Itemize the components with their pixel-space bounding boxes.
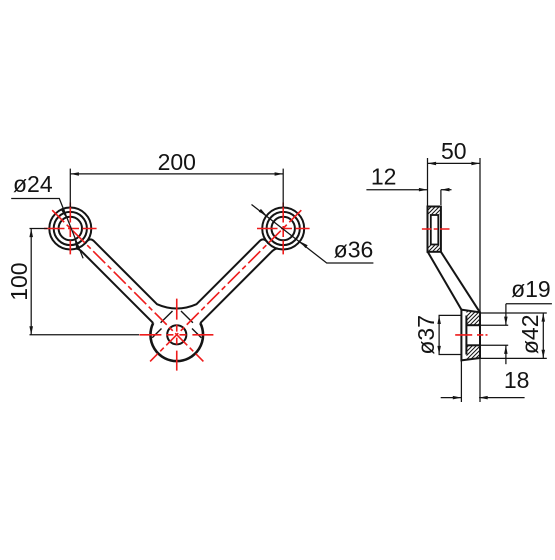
svg-text:200: 200 xyxy=(158,149,196,175)
dimension dia 19 xyxy=(506,304,552,364)
dimension 12 xyxy=(366,190,451,205)
svg-text:50: 50 xyxy=(441,138,467,164)
side view: arm slant lines xyxy=(428,252,480,313)
red centerlines side view xyxy=(422,229,488,335)
svg-text:ø36: ø36 xyxy=(334,237,374,263)
side view: ring hatching xyxy=(428,207,440,251)
front view: hub bore circle xyxy=(167,325,186,344)
svg-text:100: 100 xyxy=(6,262,32,300)
side view: flange inner cone line xyxy=(465,316,467,355)
svg-text:ø24: ø24 xyxy=(13,171,53,197)
side view: arm ring outer xyxy=(428,207,441,252)
dimension 100 xyxy=(30,229,140,335)
side view: bore lines xyxy=(466,325,480,345)
side view: flange outline xyxy=(461,310,480,361)
diameter 36 leader xyxy=(252,205,374,264)
red centerlines front view xyxy=(44,203,310,373)
front view: left boss circles xyxy=(49,208,91,250)
dimension 50 xyxy=(428,158,481,312)
front view: arm inner edges and V notch xyxy=(85,239,268,308)
front view: left arm outer edge xyxy=(76,249,154,323)
dimension dia 37 xyxy=(439,315,461,354)
front view: right arm outer edge xyxy=(200,249,277,323)
svg-text:ø37: ø37 xyxy=(413,315,439,355)
side view: arm ring bore xyxy=(431,215,439,245)
svg-text:12: 12 xyxy=(371,164,397,190)
front view: right boss circles xyxy=(262,208,304,250)
diameter 24 leader xyxy=(11,199,83,259)
svg-text:ø42: ø42 xyxy=(517,314,543,354)
front view: web edge lines at hub xyxy=(152,311,201,338)
dimension 18 xyxy=(441,358,525,402)
front view: hub outer arc xyxy=(150,323,203,361)
dimension dia 42 xyxy=(481,313,547,358)
svg-text:18: 18 xyxy=(504,367,530,393)
dimension 200 xyxy=(70,169,283,208)
svg-text:ø19: ø19 xyxy=(511,276,551,302)
